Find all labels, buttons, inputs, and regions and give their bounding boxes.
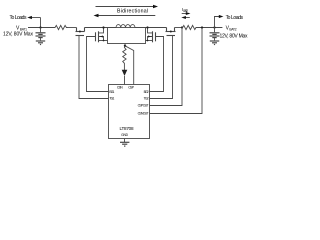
resistor to CSN (squiggle) <box>123 47 126 73</box>
svg-text:TG2: TG2 <box>144 97 149 101</box>
arrowhead down to CSN <box>122 70 128 76</box>
wire arrow to loads right <box>215 17 220 28</box>
transistor M3 (inner right FET) <box>153 31 156 42</box>
wire V1 rail <box>28 27 54 29</box>
label IBAT2 current <box>182 7 188 13</box>
svg-text:BG1: BG1 <box>109 90 114 94</box>
wire to loads left <box>31 17 41 19</box>
svg-text:Bidirectional: Bidirectional <box>117 9 148 15</box>
wire CSPOUT <box>150 28 183 106</box>
arrowhead left <box>27 16 32 19</box>
svg-text:CSP: CSP <box>128 86 135 90</box>
transistor M4 (outer right FET) <box>166 28 176 36</box>
transistor M2 (inner left FET) <box>96 31 99 42</box>
svg-text:BG2: BG2 <box>144 90 149 94</box>
wire node to CSP <box>125 46 134 85</box>
svg-text:CSN: CSN <box>117 86 123 90</box>
wire <box>67 27 77 29</box>
wire rail SW2 <box>135 27 167 29</box>
label To Loads (right) <box>226 15 244 21</box>
wire rail to output resistor <box>175 27 183 29</box>
junction V1 battery <box>39 26 41 28</box>
svg-text:LT8708: LT8708 <box>120 126 134 131</box>
transistor M1 (outer left FET) <box>76 28 85 36</box>
ground (left battery) <box>36 41 45 45</box>
svg-text:To Loads: To Loads <box>226 15 244 21</box>
label 12V 80V Max (right) <box>220 33 249 39</box>
wire M4 gate to TG2 <box>150 38 173 99</box>
wire rail to V2 <box>198 27 223 29</box>
wire M1 gate to TG1 <box>79 38 109 99</box>
svg-text:TG1: TG1 <box>109 97 114 101</box>
label To Loads (left) <box>10 15 27 21</box>
label 12V 80V Max (left) <box>3 32 34 38</box>
arrow current left <box>185 17 190 19</box>
wire BG1 to M2 gate <box>87 37 109 92</box>
bidirectional arrow left <box>97 15 155 17</box>
pin labels CSN CSP BG1 TG1 BG2 TG2 CSPOUT CSNOUT LT8708 GND <box>109 86 148 138</box>
resistor RSNS1 (input sense) <box>54 25 68 29</box>
svg-text:12V, 80V Max: 12V, 80V Max <box>3 32 34 38</box>
wire CSNOUT <box>150 28 203 114</box>
IC U1 LT8708 <box>109 85 150 139</box>
inductor L1 <box>116 25 135 28</box>
arrow current right <box>182 13 187 15</box>
sense box RSNS <box>108 28 146 44</box>
wire rail SW1 <box>85 27 117 29</box>
svg-text:CSNOUT: CSNOUT <box>138 112 149 116</box>
battery B2 <box>214 28 216 33</box>
battery B1 <box>40 28 42 33</box>
svg-text:To Loads: To Loads <box>10 15 27 21</box>
ground (right battery) <box>210 41 219 45</box>
svg-text:GND: GND <box>121 133 129 137</box>
node VB1 label <box>16 26 27 32</box>
ground (IC) <box>124 139 126 143</box>
label Bidirectional <box>117 9 148 15</box>
node below RSNS box <box>124 44 126 46</box>
wire BG2 to M3 gate <box>150 37 164 92</box>
svg-text:BAT2: BAT2 <box>229 28 236 32</box>
resistor RSNS2 (output sense) <box>183 25 198 29</box>
bidirectional arrow right <box>96 6 155 8</box>
svg-text:CSPOUT: CSPOUT <box>138 103 149 107</box>
node VB2 label <box>226 26 237 32</box>
svg-text:12V, 80V Max: 12V, 80V Max <box>220 33 249 39</box>
